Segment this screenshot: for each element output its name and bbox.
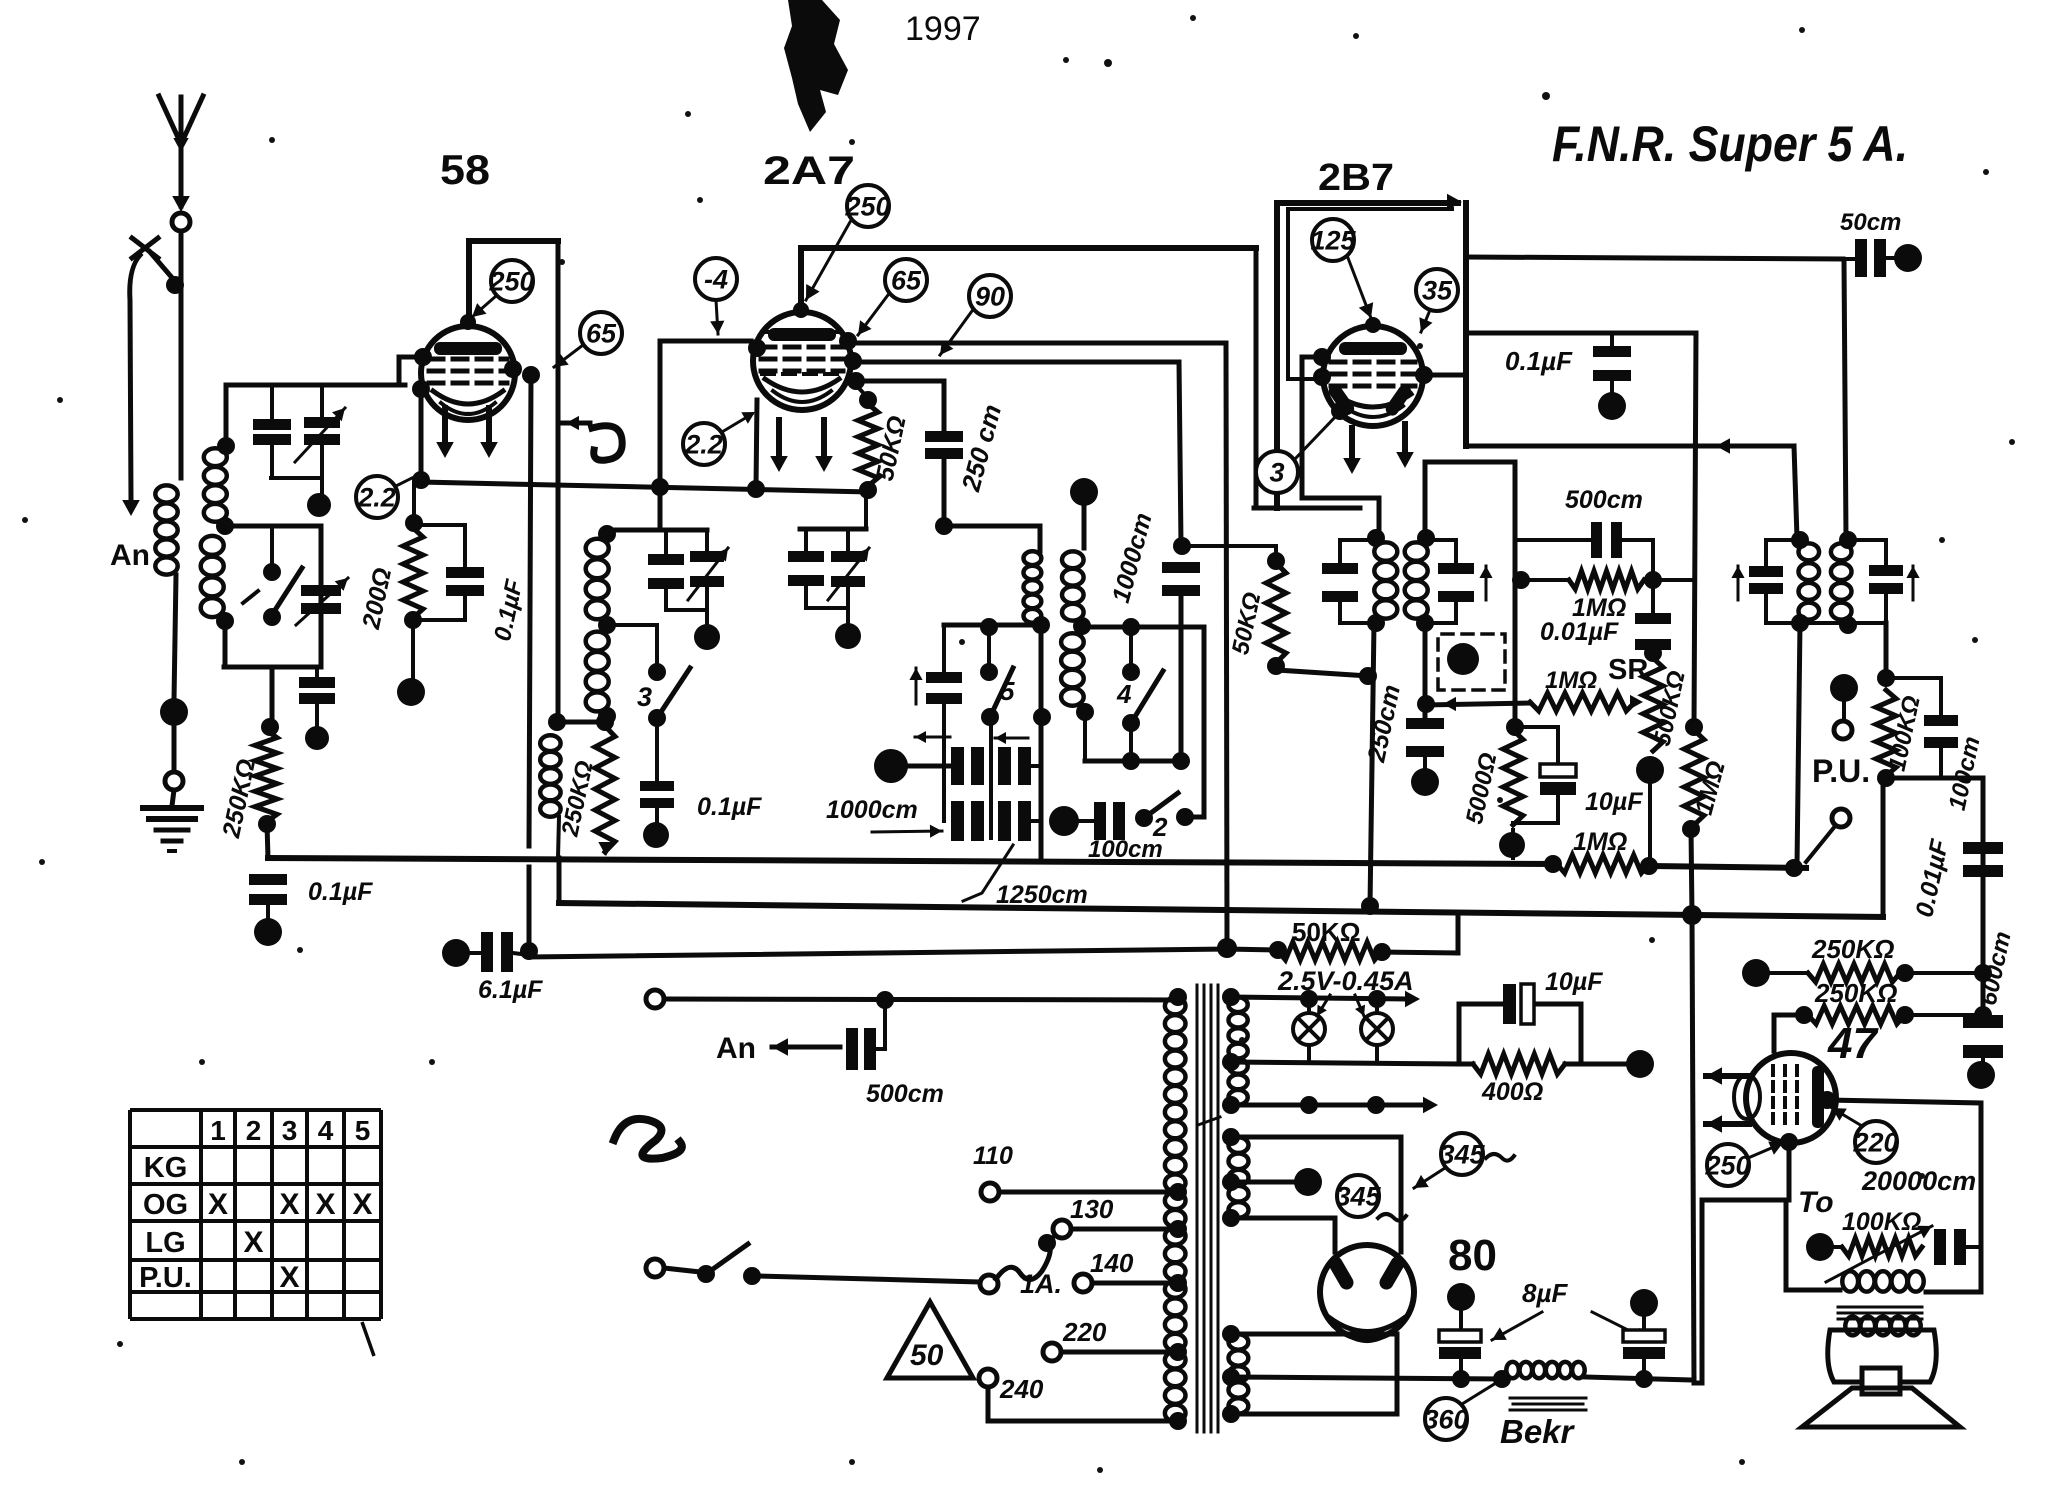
node 58 top cap: [460, 314, 476, 330]
tap terminal 130: [1052, 1233, 1058, 1238]
terminal blob 250cm: [1411, 768, 1439, 796]
wire bus B corner up: [1881, 780, 1886, 917]
wire antenna lead: [179, 232, 184, 478]
svg-text:5000Ω: 5000Ω: [1461, 750, 1502, 826]
coil det right: [1831, 543, 1852, 619]
terminal blob 5000 bottom: [1499, 832, 1525, 858]
wire IF2 left drop to bus B: [1370, 623, 1374, 906]
coil osc L5 lower: [586, 632, 609, 712]
svg-text:10µF: 10µF: [1545, 968, 1603, 996]
arrow det left trimmer: [1737, 566, 1740, 600]
wire 58 screen column: [556, 241, 561, 722]
wire heater stub 58: [558, 421, 590, 426]
circled 250 at 58: [491, 260, 533, 302]
wire vertical feeder 1179: [1179, 362, 1181, 545]
wire PU to bus: [1806, 825, 1836, 862]
wire 47 cathode network: [1702, 1142, 1789, 1200]
capacitor 500cm: [1515, 540, 1591, 580]
wire osc -4 rail: [660, 339, 751, 344]
capacitor IF1 trimmer: [926, 672, 962, 683]
svg-text:3: 3: [282, 1115, 298, 1146]
capacitor band trimmer 2: [301, 585, 341, 596]
resistor 50K bus C: [1227, 949, 1278, 950]
fuse 1A squiggle: [996, 1245, 1050, 1280]
capacitor 6.1uF: [442, 939, 470, 967]
circled 2.2 at 2A7: [683, 423, 725, 465]
node 2A7 left pin: [748, 339, 766, 357]
switch 3 blade: [657, 668, 690, 718]
capacitor osc trimmer: [705, 530, 709, 551]
wire switch3 to cap: [655, 720, 659, 779]
wire 220: [1061, 1350, 1178, 1355]
svg-text:1997: 1997: [905, 10, 981, 48]
circled 220 at 47: [1855, 1121, 1897, 1163]
terminal blob mixer caps: [874, 749, 908, 783]
terminal blob tank: [307, 493, 331, 517]
terminal blob 600cm: [1967, 1061, 1995, 1089]
node 200 bottom: [404, 611, 422, 629]
resistor 250K ohm antenna: [255, 730, 277, 822]
switch 5 stub: [987, 625, 991, 672]
capacitor det right: [1869, 565, 1903, 576]
wire IF1 y625 row: [944, 623, 1041, 628]
capacitor 10uF heater: [1503, 984, 1516, 1024]
ink blot artifact: [784, 0, 848, 132]
resistor 1M ohm det: [1515, 578, 1569, 582]
capacitor 0.01uF SR: [1635, 613, 1671, 624]
svg-text:X: X: [243, 1226, 263, 1259]
wire 58 plate rect top: [469, 238, 558, 244]
capacitor tank2 fixed: [804, 529, 808, 551]
transformer primary winding: [1165, 997, 1186, 1421]
wire 80 filament loop: [1231, 1334, 1397, 1414]
wire grid rail 58: [226, 383, 405, 388]
switch 4 contacts: [1129, 627, 1133, 668]
wire trimmer drop: [942, 625, 946, 672]
tube 2B7 diode plates: [1326, 382, 1356, 417]
capacitor 490cm: [315, 667, 319, 677]
svg-text:50: 50: [910, 1339, 944, 1372]
output transformer primary: [1842, 1271, 1923, 1291]
wire det right drop to pot: [1884, 623, 1889, 675]
wire pot bottom row: [1886, 776, 1983, 781]
wire sec bottom row: [1083, 712, 1087, 761]
circled 250 at 47: [1707, 1144, 1749, 1186]
node in dashed box: [1447, 643, 1479, 675]
node osc bus junction: [651, 478, 669, 496]
node 50K bottom on bus: [859, 481, 877, 499]
wire 240: [988, 1387, 1178, 1421]
svg-text:250: 250: [844, 191, 890, 221]
svg-text:X: X: [352, 1188, 372, 1221]
resistor 1M AVC inline bus A: [1557, 855, 1649, 873]
svg-text:0.1µF: 0.1µF: [489, 576, 529, 643]
svg-text:250cm: 250cm: [1362, 682, 1406, 765]
svg-text:3: 3: [1269, 457, 1284, 487]
wire 2B7 box outer: [1277, 203, 1458, 508]
tube 47 heater arrows: [1706, 1073, 1749, 1079]
tube 80: [1320, 1245, 1414, 1339]
An terminal top: [646, 990, 664, 1008]
wire bus A: [268, 858, 1556, 864]
wire 47 grid lead: [1774, 1015, 1804, 1051]
switch 1 contacts: [263, 563, 281, 581]
node 2B7 cathode: [1331, 402, 1349, 420]
volume pot 100K output: [1806, 1233, 1834, 1261]
wire 50K to diode node: [1277, 670, 1368, 676]
svg-text:X: X: [279, 1188, 299, 1221]
wire 58 screen bypass column: [529, 375, 531, 846]
svg-text:1MΩ: 1MΩ: [1573, 828, 1627, 856]
wire 2B7 box inner: [1288, 209, 1452, 379]
arrow An: [772, 1045, 840, 1050]
svg-text:250KΩ: 250KΩ: [1814, 978, 1897, 1008]
svg-text:100KΩ: 100KΩ: [1842, 1208, 1921, 1236]
coil IF2 left: [1367, 529, 1385, 547]
wire L3 bottom to bottom rail: [223, 621, 228, 667]
svg-text:220: 220: [1062, 1317, 1107, 1347]
svg-text:4: 4: [1116, 679, 1132, 709]
jog bus A to bus B: [557, 858, 562, 903]
svg-text:200Ω: 200Ω: [357, 565, 397, 632]
wire 140: [1092, 1281, 1178, 1286]
wire HV bottom: [1231, 1218, 1335, 1252]
wire 50cm feed: [1466, 257, 1843, 259]
svg-text:X: X: [315, 1188, 335, 1221]
resistor 250K osc: [595, 726, 615, 852]
wire grid tank riser: [1302, 372, 1379, 540]
terminal blob 0.1uF screen: [1598, 392, 1626, 420]
svg-text:1000cm: 1000cm: [1107, 510, 1158, 606]
capacitor 0.01uF right: [1963, 842, 2003, 854]
capacitor antenna trimmer: [320, 385, 324, 417]
node IF1 sec bottom: [1076, 703, 1094, 721]
circled 250 at 2A7: [847, 185, 889, 227]
wire 2B7 box bottom: [1254, 506, 1360, 511]
wire grid rail 2: [853, 360, 1179, 365]
wire 2A7 plate lead: [798, 248, 804, 308]
svg-text:250: 250: [1704, 1150, 1750, 1180]
node bus C blob: [1217, 938, 1237, 958]
svg-text:35: 35: [1422, 275, 1453, 305]
capacitor 0.1uF 2B7 screen: [1610, 333, 1614, 346]
wire bus B: [559, 903, 1883, 917]
switch mains: [697, 1265, 715, 1283]
lamp 2: [1361, 1013, 1393, 1045]
choke core: [1510, 1397, 1586, 1400]
capacitor bank 1250cm row2: [951, 801, 964, 841]
coil IF2 right: [1417, 529, 1435, 547]
node 58 grid pin: [414, 348, 432, 366]
svg-text:65: 65: [891, 265, 922, 295]
wire vertical feeder C: [1226, 343, 1227, 948]
svg-text:1000cm: 1000cm: [826, 796, 918, 824]
wire 2B7 screen to box: [1424, 373, 1466, 378]
svg-text:130: 130: [1070, 1194, 1114, 1224]
transformer secondary heater winding: [1229, 997, 1248, 1104]
node bus A right blob: [1785, 859, 1803, 877]
core arrow tick: [1198, 1117, 1220, 1125]
svg-text:90: 90: [975, 281, 1005, 311]
svg-text:10µF: 10µF: [1585, 788, 1643, 816]
circled 35: [1416, 269, 1458, 311]
svg-text:58: 58: [440, 146, 490, 193]
switch 1 blade: [268, 568, 302, 621]
terminal blob 200ohm: [397, 678, 425, 706]
svg-text:0.01µF: 0.01µF: [1540, 618, 1619, 646]
wire switch2 column: [1202, 627, 1207, 817]
svg-text:65: 65: [586, 318, 617, 348]
svg-text:An: An: [110, 539, 150, 572]
squiggle symbol: [614, 1119, 682, 1159]
svg-text:8µF: 8µF: [1522, 1278, 1568, 1308]
transformer secondary HV winding: [1229, 1137, 1249, 1217]
circled 345 left: [1337, 1175, 1379, 1217]
coil IF1 secondary lower: [1061, 633, 1084, 705]
wire row right lead: [1031, 764, 1041, 768]
wire to blob: [411, 620, 415, 678]
wire IF2 left top: [1340, 538, 1376, 542]
arrow IF2 right trimmer: [1485, 566, 1488, 600]
speaker housing: [1828, 1330, 1937, 1382]
capacitor IF2 left: [1322, 563, 1358, 574]
node 2A7 grid pins: [839, 332, 857, 350]
tap terminal 140: [1074, 1274, 1092, 1292]
resistor 50K 2B7 grid leak: [1227, 545, 1276, 547]
coil osc grid choke: [540, 735, 560, 816]
capacitor bank 1000cm row1: [951, 747, 964, 785]
capacitor 100cm right: [1886, 676, 1941, 680]
output transformer secondary: [1845, 1317, 1920, 1336]
node 58 pins left: [412, 380, 430, 398]
switch 4 blade: [1131, 671, 1163, 723]
wire 2A7 plate rail: [801, 245, 1256, 251]
switch 5 contacts: [980, 663, 998, 681]
svg-text:F.N.R. Super 5 A.: F.N.R. Super 5 A.: [1552, 116, 1908, 172]
circled 360: [1425, 1398, 1467, 1440]
wire bus C to bus B riser: [1456, 914, 1461, 953]
wire An branch: [130, 255, 140, 500]
svg-text:1A.: 1A.: [1020, 1269, 1062, 1299]
coil det left: [1791, 531, 1809, 549]
wire heater mid: [1231, 1062, 1459, 1064]
svg-text:360: 360: [1423, 1404, 1468, 1434]
capacitor 8uF left: [1447, 1283, 1475, 1311]
svg-text:345: 345: [1335, 1181, 1381, 1211]
primary taps: [1169, 988, 1187, 1006]
svg-text:240: 240: [999, 1374, 1044, 1404]
svg-text:0.01µF: 0.01µF: [1910, 836, 1954, 919]
wire resistor to bus A: [267, 824, 268, 858]
capacitor 600cm: [1963, 1015, 2003, 1028]
svg-text:110: 110: [973, 1142, 1013, 1170]
svg-text:To: To: [1798, 1186, 1834, 1219]
wire y627 row to switch2 column: [1082, 625, 1204, 630]
switch 5 blade: [990, 668, 1013, 717]
table tail stroke: [362, 1322, 374, 1356]
svg-text:P.U.: P.U.: [139, 1262, 192, 1294]
wire det bottom row: [1766, 621, 1886, 625]
arrow det right trimmer: [1912, 566, 1915, 600]
capacitor 8uF right: [1630, 1289, 1658, 1317]
wire below L1: [174, 575, 176, 700]
label 1250cm with pointer: [963, 845, 1013, 901]
wire 2B7 cathode arrows: [1349, 428, 1355, 466]
wire heater bus 58-2A7: [421, 482, 868, 492]
wire osc bottom row: [557, 720, 607, 725]
resistor 200 ohm: [405, 514, 423, 532]
capacitor 0.1uF osc: [640, 781, 674, 791]
node 250cm bottom: [935, 517, 953, 535]
svg-text:500cm: 500cm: [866, 1080, 944, 1108]
svg-text:0.1µF: 0.1µF: [1505, 346, 1573, 376]
wire tap row: [225, 524, 321, 529]
terminal blob 0.1uF: [254, 918, 282, 946]
node 2B7 top cap: [1365, 317, 1381, 333]
svg-text:50KΩ: 50KΩ: [1227, 590, 1267, 657]
node osc coil tap: [598, 616, 616, 634]
svg-text:3: 3: [637, 682, 652, 712]
svg-text:SR: SR: [1608, 654, 1648, 686]
svg-text:Bekr: Bekr: [1500, 1413, 1576, 1450]
circled -4: [695, 258, 737, 300]
svg-text:140: 140: [1090, 1248, 1134, 1278]
svg-text:500cm: 500cm: [1565, 486, 1643, 514]
wire tank2 right stub: [864, 493, 868, 529]
svg-text:80: 80: [1448, 1231, 1497, 1280]
capacitor det left: [1749, 566, 1783, 577]
antenna terminal: [172, 213, 190, 231]
resistor 1M vertical: [1685, 718, 1703, 736]
fuse terminal: [980, 1275, 998, 1293]
wire tank bottom to resistor: [270, 667, 275, 727]
circled 125: [1312, 219, 1354, 261]
node IF1 primary bottom: [1032, 616, 1050, 634]
table station grid: [130, 1110, 381, 1319]
resistor 50K 2A7: [856, 385, 868, 398]
wire 110: [999, 1190, 1178, 1195]
table X marks: [208, 1188, 373, 1294]
coil L2 antenna secondary upper: [217, 437, 235, 455]
switch 3 contacts: [655, 625, 659, 672]
capacitor 58 cathode: [463, 525, 467, 567]
arrow marks above caps: [915, 736, 950, 739]
svg-text:2B7: 2B7: [1318, 157, 1394, 199]
wire to ground terminal: [172, 726, 177, 772]
node L2/L3 tap: [216, 517, 234, 535]
terminal blob 50cm: [1894, 244, 1922, 272]
wire 50cm drop to det: [1844, 261, 1846, 538]
wire det left drop: [1797, 623, 1800, 866]
svg-text:X: X: [279, 1261, 299, 1294]
svg-text:0.1µF: 0.1µF: [308, 878, 373, 906]
wire IF2 left bottom: [1340, 621, 1376, 625]
wire choke to bus: [558, 817, 559, 858]
table headers: [210, 1115, 370, 1146]
svg-text:-4: -4: [704, 264, 728, 294]
wire tap drop: [319, 526, 324, 667]
tap terminal 220: [1043, 1343, 1061, 1361]
capacitor 100cm with blob: [1049, 806, 1079, 836]
lamp 1: [1293, 1013, 1325, 1045]
wire IF2 right top riser: [1425, 462, 1515, 727]
circled 345 right: [1441, 1133, 1483, 1175]
circled 3: [1256, 451, 1298, 493]
wire tank2 top: [800, 527, 866, 532]
svg-text:250KΩ: 250KΩ: [1811, 934, 1894, 964]
node 58 screen pins: [504, 360, 522, 378]
wire IF1 top link: [944, 524, 1040, 529]
circled 65 at 2A7: [885, 259, 927, 301]
svg-text:50KΩ: 50KΩ: [871, 413, 912, 483]
svg-text:250KΩ: 250KΩ: [556, 758, 598, 839]
table row labels: [139, 1152, 192, 1294]
choke Bekr: [1493, 1370, 1511, 1388]
antenna An symbol: [179, 97, 184, 206]
tube 58: [421, 326, 515, 420]
terminal blob osc tank: [694, 624, 720, 650]
wire mains to switch: [664, 1268, 700, 1272]
node IF1 sec tap: [1073, 617, 1091, 635]
svg-text:5: 5: [1000, 676, 1015, 706]
wire grid4 rail to 2B7: [848, 341, 1226, 346]
capacitor osc fixed: [664, 530, 668, 554]
node IF2 right bottom: [1416, 614, 1434, 632]
wire diode load drop: [1423, 623, 1428, 718]
coil IF1 secondary upper: [1082, 504, 1087, 548]
tube 2A7: [753, 312, 851, 410]
svg-text:2.2: 2.2: [357, 482, 396, 512]
wire HV CT: [1231, 1180, 1294, 1185]
volume pot 100K: [1877, 669, 1895, 687]
terminal blob HV CT: [1294, 1168, 1322, 1196]
capacitor 1000cm vertical: [1162, 562, 1200, 573]
wire right column 1983: [1981, 778, 1986, 1015]
antenna coupling X switch: [132, 238, 158, 258]
capacitor output pot: [1934, 1229, 1946, 1265]
wire 58 plate lead: [466, 241, 472, 318]
wire An line: [664, 999, 1178, 1000]
output transformer core: [1838, 1306, 1922, 1309]
wire speaker return: [1786, 1200, 1840, 1290]
wire X to antenna lead: [150, 252, 174, 280]
tube 58 grid hook: [399, 355, 423, 360]
wire heater top: [1231, 997, 1406, 999]
tap terminal 110: [981, 1183, 999, 1201]
node 47 cathode: [1780, 1133, 1798, 1151]
capacitor 250cm detector: [1406, 718, 1444, 729]
heater curl symbol: [592, 426, 622, 461]
speaker cone: [1802, 1388, 1960, 1427]
PU terminal 1: [1834, 721, 1852, 739]
circled 65 at 58: [580, 312, 622, 354]
node L3 bottom: [216, 612, 234, 630]
speaker neck: [1862, 1368, 1900, 1394]
wire tank bottom rail: [224, 665, 321, 670]
dashed box diode link: [1438, 634, 1505, 690]
svg-text:250: 250: [488, 266, 534, 296]
wire right main vertical 1694: [1694, 333, 1696, 727]
capacitor 0.1uF at bus A left: [249, 874, 287, 885]
svg-text:OG: OG: [143, 1189, 188, 1221]
node bus B blob: [1682, 905, 1702, 925]
wire osc tap row: [607, 623, 657, 627]
svg-text:2.2: 2.2: [684, 429, 723, 459]
wire 2B7 box right edge: [1463, 203, 1469, 446]
node 2B7 pins: [1313, 368, 1331, 386]
PU terminal 2: [1832, 809, 1850, 827]
svg-text:KG: KG: [144, 1152, 188, 1184]
